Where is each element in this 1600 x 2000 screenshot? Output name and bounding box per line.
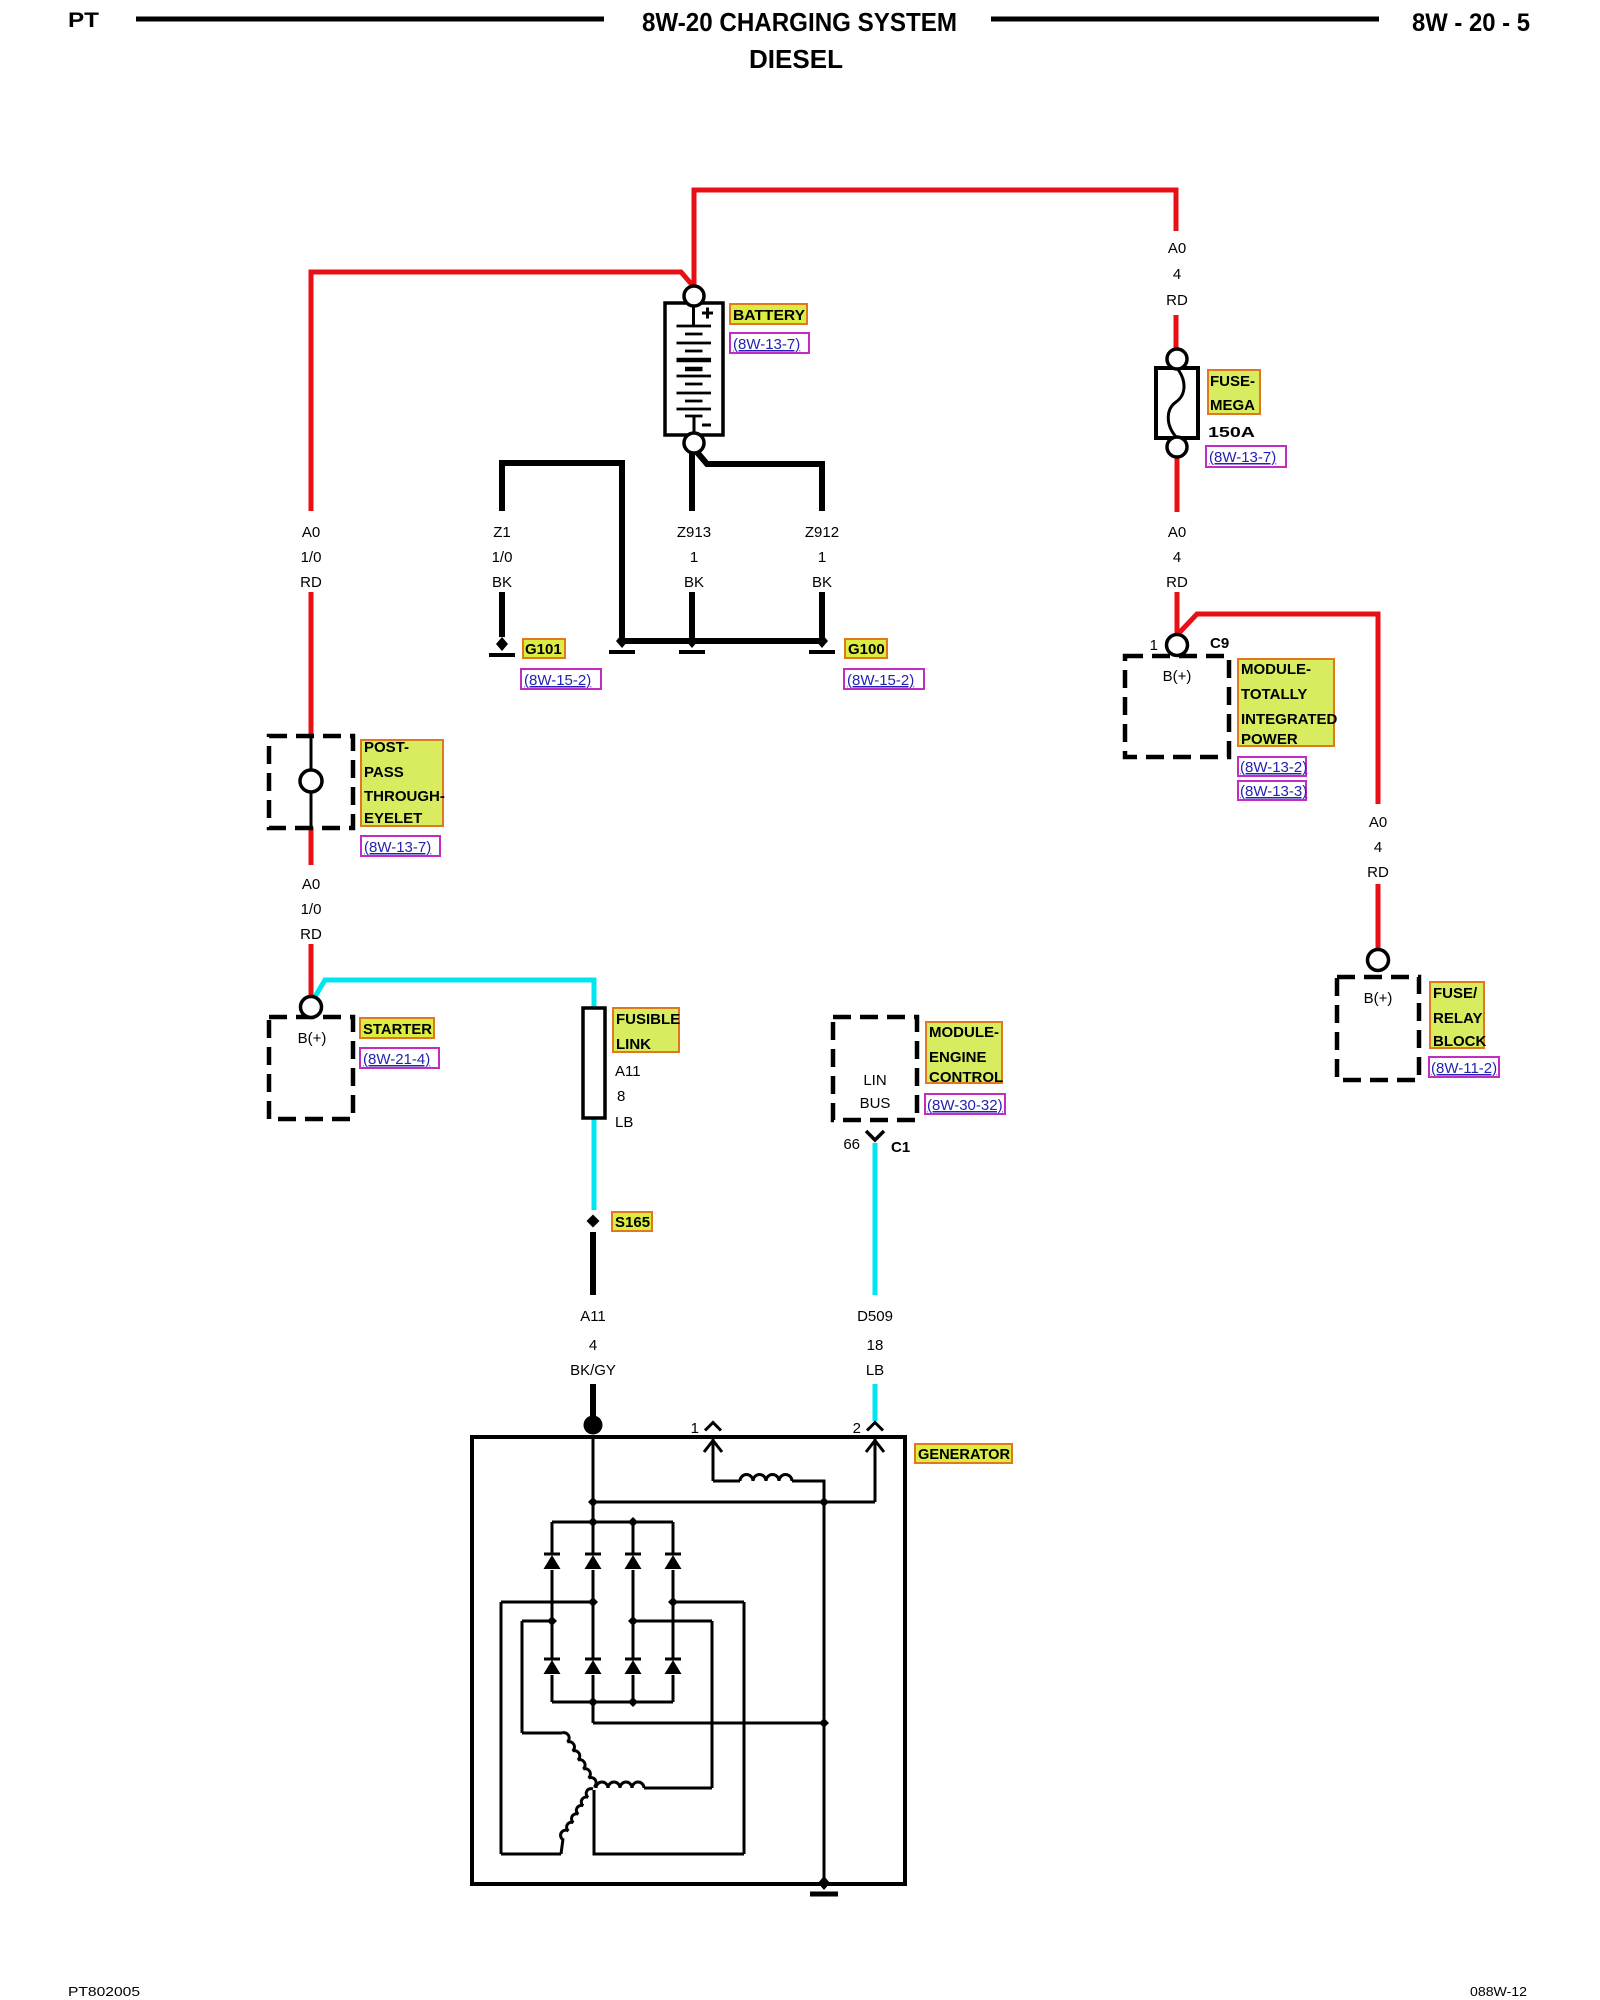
svg-text:MODULE-: MODULE- <box>1241 661 1311 678</box>
label G101 <box>521 639 601 689</box>
wire D509 18 LB engine control C1 to label <box>873 1143 878 1295</box>
svg-text:BUS: BUS <box>860 1095 891 1112</box>
phase tap col3 right <box>633 1620 712 1623</box>
svg-text:PT802005: PT802005 <box>68 1984 140 1999</box>
junction ground trunk <box>819 1718 829 1728</box>
wire A0 1/0 RD eyelet to label <box>309 827 314 865</box>
svg-text:BK/GY: BK/GY <box>570 1362 616 1379</box>
svg-text:GENERATOR: GENERATOR <box>918 1446 1010 1463</box>
svg-text:RD: RD <box>1367 864 1389 881</box>
junction bottom bus col3 <box>628 1697 638 1707</box>
diode column 4 <box>665 1522 682 1702</box>
svg-text:8W - 20 - 5: 8W - 20 - 5 <box>1412 9 1530 37</box>
svg-text:PT: PT <box>68 9 99 32</box>
svg-text:TOTALLY: TOTALLY <box>1241 686 1307 703</box>
svg-text:088W-12: 088W-12 <box>1470 1984 1527 1999</box>
svg-text:STARTER: STARTER <box>363 1021 432 1038</box>
label FUSE/RELAY BLOCK <box>1429 982 1499 1077</box>
svg-text:LIN: LIN <box>863 1072 886 1089</box>
wire label A0 1/0 RD upper left <box>300 524 322 591</box>
svg-text:S165: S165 <box>615 1214 650 1231</box>
svg-text:BK: BK <box>492 574 512 591</box>
phase vertical left outer <box>500 1602 503 1854</box>
wire A11 4 BK/GY splice to label <box>590 1232 596 1295</box>
wire A0 4 RD label to C9 <box>1175 592 1180 634</box>
svg-text:Z913: Z913 <box>677 524 711 541</box>
svg-text:RD: RD <box>1166 292 1188 309</box>
svg-text:66: 66 <box>843 1136 860 1153</box>
connector C9 pin 1 labels <box>1150 635 1230 654</box>
svg-text:BK: BK <box>812 574 832 591</box>
junction top bus col2 <box>588 1517 598 1527</box>
svg-text:FUSE-: FUSE- <box>1210 373 1255 390</box>
svg-text:A11: A11 <box>615 1063 641 1080</box>
wire A0 4 RD fuse to label <box>1175 457 1180 512</box>
module-totally integrated power (TIPM) <box>1125 635 1229 758</box>
junction field coil to terminal2 bus <box>819 1497 829 1507</box>
battery B1 <box>665 286 723 453</box>
svg-text:A0: A0 <box>1369 814 1387 831</box>
svg-text:A0: A0 <box>302 524 320 541</box>
svg-text:BLOCK: BLOCK <box>1433 1033 1486 1050</box>
generator field winding L1 <box>713 1475 824 1884</box>
ground G101 <box>489 637 515 655</box>
svg-text:PASS: PASS <box>364 764 404 781</box>
label FUSE-MEGA 150A <box>1206 370 1286 467</box>
svg-text:Z1: Z1 <box>493 524 511 541</box>
svg-text:1: 1 <box>691 1420 699 1437</box>
wire A0 1/0 RD left branch <box>311 272 694 511</box>
svg-text:(8W-15-2): (8W-15-2) <box>847 672 914 689</box>
junction col1 midpoint <box>547 1616 557 1626</box>
module-engine control <box>833 1017 917 1120</box>
svg-text:LB: LB <box>866 1362 884 1379</box>
svg-text:8: 8 <box>617 1088 625 1105</box>
svg-text:(8W-15-2): (8W-15-2) <box>524 672 591 689</box>
wire Z913 1 BK lower segment <box>689 592 695 637</box>
svg-text:A0: A0 <box>1168 524 1186 541</box>
wire A0 1/0 RD left vertical to eyelet <box>309 592 314 737</box>
ground Z1 leg <box>609 634 635 652</box>
svg-text:G101: G101 <box>525 641 562 658</box>
black wires <box>502 451 822 1434</box>
wire A0 4 RD fuse feed <box>1174 315 1179 349</box>
diode column 1 <box>544 1522 561 1702</box>
svg-text:(8W-30-32): (8W-30-32) <box>927 1097 1003 1114</box>
splice S165 <box>587 1215 600 1228</box>
svg-text:ENGINE: ENGINE <box>929 1049 987 1066</box>
footer <box>68 1984 1527 1999</box>
stator winding phase A coil <box>522 1733 596 1787</box>
svg-text:B(+): B(+) <box>1163 668 1192 685</box>
svg-text:4: 4 <box>1173 266 1181 283</box>
rectifier top bus <box>552 1521 673 1524</box>
phase vertical right inner <box>711 1621 714 1788</box>
wire ground bus G100 <box>622 638 822 644</box>
wire A0 1/0 RD label to starter <box>309 944 314 996</box>
svg-text:C1: C1 <box>891 1139 910 1156</box>
diode column 3 <box>625 1522 642 1702</box>
svg-text:FUSE/: FUSE/ <box>1433 985 1478 1002</box>
generator terminal 2 connector <box>866 1423 884 1503</box>
cyan wires <box>313 980 875 1421</box>
label STARTER <box>360 1018 439 1068</box>
wire D509 18 LB label to generator terminal 2 <box>873 1384 878 1421</box>
wire Z913 1 BK battery negative <box>689 453 695 511</box>
svg-text:1: 1 <box>690 549 698 566</box>
wire label A0 4 RD branch <box>1367 814 1389 881</box>
wire label D509 18 LB <box>857 1308 893 1379</box>
wire Z912 1 BK lower segment to G100 <box>819 592 825 637</box>
svg-text:RELAY: RELAY <box>1433 1010 1482 1027</box>
wire A11 4 BK/GY label to generator <box>590 1384 596 1434</box>
junction col2 midpoint <box>588 1597 598 1607</box>
svg-text:4: 4 <box>589 1337 597 1354</box>
phase vertical right outer <box>743 1602 746 1854</box>
label MODULE-TOTALLY INTEGRATED POWER <box>1238 659 1338 800</box>
header <box>68 7 1530 74</box>
svg-text:(8W-21-4): (8W-21-4) <box>363 1051 430 1068</box>
svg-text:INTEGRATED: INTEGRATED <box>1241 711 1338 728</box>
wire label Z1 1/0 BK <box>492 524 513 591</box>
svg-text:RD: RD <box>300 574 322 591</box>
label G100 <box>844 639 924 689</box>
svg-text:Z912: Z912 <box>805 524 839 541</box>
wire label A0 1/0 RD lower left <box>300 876 322 943</box>
label FUSIBLE LINK <box>613 1008 680 1131</box>
label BATTERY <box>730 304 809 353</box>
fuse/relay block <box>1337 950 1419 1081</box>
svg-text:(8W-13-2): (8W-13-2) <box>1240 759 1307 776</box>
svg-text:MODULE-: MODULE- <box>929 1024 999 1041</box>
post-pass through-eyelet <box>269 736 353 828</box>
svg-text:4: 4 <box>1374 839 1382 856</box>
ground G100 <box>809 634 835 652</box>
svg-text:D509: D509 <box>857 1308 893 1325</box>
wire Z1 1/0 BK lower segment to G101 <box>499 592 505 637</box>
svg-text:POST-: POST- <box>364 739 409 756</box>
svg-text:1/0: 1/0 <box>492 549 513 566</box>
wire label Z912 1 BK <box>805 524 839 591</box>
svg-text:DIESEL: DIESEL <box>749 44 843 74</box>
svg-text:LINK: LINK <box>616 1036 651 1053</box>
connector C1 pin 66 <box>843 1131 910 1156</box>
label S165 <box>612 1212 652 1231</box>
generator terminal 1 connector <box>704 1423 722 1482</box>
wire A11 8 LB fusible link to splice S165 <box>592 1118 597 1210</box>
label GENERATOR <box>915 1444 1012 1463</box>
wire A11 8 LB starter to fusible link <box>313 980 594 1008</box>
stator neutral to col4 <box>594 1790 744 1854</box>
diode column 2 <box>585 1522 602 1702</box>
wire terminal2 to B+ bus <box>593 1501 875 1504</box>
svg-text:B(+): B(+) <box>298 1030 327 1047</box>
phase tap col2 left <box>501 1601 593 1604</box>
generator box <box>472 1437 905 1884</box>
svg-text:(8W-13-7): (8W-13-7) <box>364 839 431 856</box>
svg-text:8W-20 CHARGING SYSTEM: 8W-20 CHARGING SYSTEM <box>642 7 957 37</box>
svg-text:B(+): B(+) <box>1364 990 1393 1007</box>
wire label A11 4 BK/GY <box>570 1308 616 1379</box>
svg-text:BK: BK <box>684 574 704 591</box>
svg-text:(8W-11-2): (8W-11-2) <box>1431 1060 1497 1077</box>
svg-text:18: 18 <box>867 1337 884 1354</box>
svg-text:CONTROL: CONTROL <box>929 1069 1003 1086</box>
svg-text:A0: A0 <box>1168 240 1186 257</box>
svg-text:MEGA: MEGA <box>1210 397 1255 414</box>
wire Z912 1 BK branch from battery <box>696 451 822 511</box>
svg-text:RD: RD <box>300 926 322 943</box>
rectifier bottom bus <box>552 1701 673 1704</box>
svg-text:FUSIBLE: FUSIBLE <box>616 1011 680 1028</box>
svg-text:BATTERY: BATTERY <box>733 307 805 324</box>
starter <box>269 997 353 1120</box>
phase tap col4 right <box>673 1601 744 1604</box>
svg-text:2: 2 <box>853 1420 861 1437</box>
svg-text:LB: LB <box>615 1114 633 1131</box>
red wires <box>311 190 1378 996</box>
svg-text:(8W-13-3): (8W-13-3) <box>1240 783 1307 800</box>
wire label A0 4 RD top right <box>1166 240 1188 309</box>
svg-text:4: 4 <box>1173 549 1181 566</box>
svg-text:A0: A0 <box>302 876 320 893</box>
stator winding phase C coil <box>501 1789 593 1854</box>
svg-text:(8W-13-7): (8W-13-7) <box>733 336 800 353</box>
wire label Z913 1 BK <box>677 524 711 591</box>
svg-text:1: 1 <box>1150 637 1158 654</box>
wire label A0 4 RD mid right <box>1166 524 1188 591</box>
wire generator B+ vertical <box>592 1437 595 1522</box>
svg-text:1: 1 <box>818 549 826 566</box>
wire A0 4 RD branch to fuse/relay block <box>1179 614 1378 804</box>
junction top bus col3 <box>628 1517 638 1527</box>
wire bottom bus to ground trunk <box>593 1702 824 1723</box>
label MODULE-ENGINE CONTROL <box>925 1022 1005 1114</box>
svg-text:150A: 150A <box>1208 424 1255 441</box>
ground Z913 leg <box>679 634 705 652</box>
wire A0 RD battery feed top horizontal <box>694 190 1176 288</box>
node splice at generator B+ input <box>584 1416 603 1435</box>
phase tap col1 left <box>522 1620 552 1623</box>
wire A0 4 RD branch label to relay block <box>1376 884 1381 950</box>
fusible link A11 <box>583 1008 605 1118</box>
svg-text:EYELET: EYELET <box>364 810 422 827</box>
fuse F1 mega 150A <box>1156 349 1198 457</box>
junction bottom bus col2 <box>588 1697 598 1707</box>
svg-text:1/0: 1/0 <box>301 549 322 566</box>
label POST-PASS THROUGH-EYELET <box>361 739 445 856</box>
wire Z1 1/0 BK upper segment <box>502 463 622 637</box>
generator internal ground <box>810 1876 838 1894</box>
svg-text:C9: C9 <box>1210 635 1229 652</box>
svg-text:G100: G100 <box>848 641 885 658</box>
stator winding phase B coil <box>596 1782 712 1788</box>
svg-text:(8W-13-7): (8W-13-7) <box>1209 449 1276 466</box>
junction col3 midpoint <box>628 1616 638 1626</box>
svg-text:RD: RD <box>1166 574 1188 591</box>
svg-text:THROUGH-: THROUGH- <box>364 788 445 805</box>
junction col4 midpoint <box>668 1597 678 1607</box>
svg-text:1/0: 1/0 <box>301 901 322 918</box>
svg-text:POWER: POWER <box>1241 731 1298 748</box>
junction B+ to terminal2 bus <box>588 1497 598 1507</box>
phase vertical left inner <box>521 1621 524 1733</box>
svg-text:A11: A11 <box>580 1308 606 1325</box>
